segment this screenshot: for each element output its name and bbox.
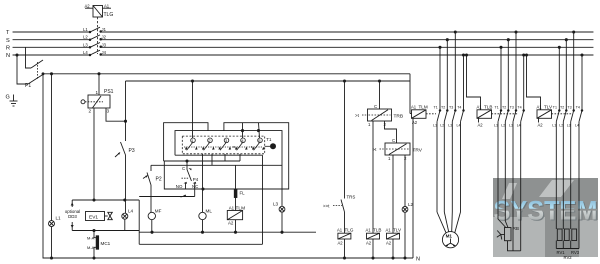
motor M1 bbox=[442, 232, 458, 248]
svg-text:A2: A2 bbox=[366, 241, 372, 246]
svg-text:T3: T3 bbox=[510, 106, 514, 110]
selector position 2 bbox=[202, 138, 215, 150]
svg-text:P4: P4 bbox=[193, 177, 199, 182]
svg-text:A1: A1 bbox=[537, 104, 543, 109]
lamp L1 rail bbox=[49, 74, 55, 258]
coil TLG (top, main switch) bbox=[85, 6, 111, 18]
selector position 4 bbox=[235, 138, 248, 150]
svg-text:N: N bbox=[416, 257, 420, 263]
svg-text:A2: A2 bbox=[85, 4, 91, 9]
svg-text:TRS: TRS bbox=[347, 195, 356, 200]
svg-text:P1: P1 bbox=[25, 83, 31, 89]
watermark slash shape small bbox=[502, 183, 517, 199]
contactor TLM contacts bbox=[437, 31, 465, 122]
svg-text:L2: L2 bbox=[83, 35, 88, 40]
wire NC branch with aux contact bbox=[139, 195, 195, 198]
svg-text:T1: T1 bbox=[553, 106, 557, 110]
coil TLB (right contactor) bbox=[465, 54, 518, 123]
svg-text:L3: L3 bbox=[83, 42, 88, 47]
svg-text:A1: A1 bbox=[229, 205, 235, 210]
wire TRV pin2 rail with lamp L2 bbox=[402, 155, 408, 258]
svg-text:T4: T4 bbox=[517, 106, 521, 110]
selector position 5 bbox=[252, 138, 265, 150]
lamp MF bbox=[148, 212, 155, 232]
svg-text:TLM: TLM bbox=[419, 104, 428, 109]
svg-text:M1: M1 bbox=[446, 233, 453, 238]
svg-text:L4: L4 bbox=[457, 123, 461, 127]
coil TLB (bottom) bbox=[367, 233, 380, 258]
svg-text:A2: A2 bbox=[386, 241, 392, 246]
svg-text:S: S bbox=[6, 38, 10, 44]
svg-text:RV3: RV3 bbox=[571, 250, 580, 255]
wire selector feeds pos4 pos5 bbox=[241, 123, 259, 138]
resistor RV3 bbox=[572, 229, 577, 241]
svg-text:TLG: TLG bbox=[345, 228, 354, 233]
bus S bbox=[13, 39, 90, 41]
watermark SYSTEM text bbox=[494, 195, 599, 226]
svg-text:T2: T2 bbox=[441, 106, 445, 110]
svg-text:J4: J4 bbox=[102, 50, 107, 55]
svg-text:J1: J1 bbox=[102, 27, 107, 32]
svg-text:A1: A1 bbox=[337, 228, 343, 233]
bus T bbox=[13, 31, 90, 33]
svg-text:L2: L2 bbox=[559, 123, 563, 127]
wire selector feed from line B bbox=[192, 81, 194, 138]
svg-text:A2: A2 bbox=[538, 123, 544, 128]
watermark grey box bbox=[493, 178, 599, 257]
brake RB bbox=[497, 228, 511, 241]
svg-text:T4: T4 bbox=[576, 106, 580, 110]
svg-text:FL: FL bbox=[240, 191, 246, 196]
svg-text:N: N bbox=[6, 53, 10, 59]
thermal element FL and coil TLM (pilot) bbox=[227, 165, 242, 232]
svg-text:3: 3 bbox=[107, 109, 110, 114]
svg-text:EV1: EV1 bbox=[89, 214, 98, 220]
dashed link from TLG coil to contacts bbox=[97, 17, 99, 54]
svg-text:J2: J2 bbox=[102, 35, 107, 40]
svg-text:L2: L2 bbox=[501, 123, 505, 127]
svg-text:L3: L3 bbox=[273, 202, 279, 207]
wire line B bbox=[126, 80, 411, 82]
optional DD3 link bbox=[71, 200, 74, 231]
svg-text:RB: RB bbox=[513, 226, 519, 231]
svg-text:L4: L4 bbox=[83, 50, 88, 55]
wire outer loop around selector bbox=[164, 123, 289, 190]
wire EV1/L4 loop bbox=[72, 155, 262, 244]
svg-text:T: T bbox=[6, 30, 10, 36]
ground G bbox=[10, 95, 18, 107]
svg-text:A2: A2 bbox=[478, 123, 484, 128]
bus R bbox=[13, 46, 90, 48]
selector inner contact rail bbox=[184, 146, 263, 148]
wire TRB pin2 to TRV bbox=[385, 121, 397, 143]
bus N bbox=[13, 54, 90, 56]
svg-text:L1: L1 bbox=[83, 27, 88, 32]
svg-text:L1: L1 bbox=[552, 123, 556, 127]
svg-text:L3: L3 bbox=[448, 123, 452, 127]
svg-text:DD3: DD3 bbox=[68, 214, 77, 219]
svg-text:TLB: TLB bbox=[484, 104, 492, 109]
svg-text:RV2: RV2 bbox=[564, 255, 573, 260]
lamp L3 bbox=[279, 206, 285, 232]
svg-text:L2: L2 bbox=[440, 123, 444, 127]
svg-text:T1: T1 bbox=[495, 106, 499, 110]
svg-text:A1: A1 bbox=[411, 104, 417, 109]
svg-text:G: G bbox=[6, 95, 10, 101]
svg-text:C: C bbox=[374, 104, 377, 109]
bottom bus N bbox=[43, 74, 413, 259]
lamp ML bbox=[199, 212, 206, 232]
svg-text:T3: T3 bbox=[567, 106, 571, 110]
resistor RV1 bbox=[557, 229, 562, 241]
valve EV1 bbox=[86, 212, 113, 221]
wire TRB pin1 to coil TLB bbox=[372, 121, 374, 233]
thermal contact MC1 bbox=[94, 231, 99, 259]
wire inner loop around selector bbox=[175, 131, 282, 207]
svg-text:A1: A1 bbox=[386, 228, 392, 233]
svg-text:L1: L1 bbox=[494, 123, 498, 127]
svg-text:A1: A1 bbox=[477, 104, 483, 109]
svg-text:TLV: TLV bbox=[544, 104, 553, 109]
svg-text:A2: A2 bbox=[228, 221, 234, 226]
svg-text:MF: MF bbox=[155, 209, 162, 214]
svg-text:T1: T1 bbox=[434, 106, 438, 110]
svg-text:T3: T3 bbox=[449, 106, 453, 110]
svg-text:M-A: M-A bbox=[87, 236, 95, 241]
lamp L4 bbox=[122, 213, 128, 230]
svg-text:A2: A2 bbox=[338, 241, 344, 246]
svg-text:L4: L4 bbox=[575, 123, 579, 127]
svg-text:R: R bbox=[6, 46, 10, 52]
svg-text:L3: L3 bbox=[509, 123, 513, 127]
svg-text:A1: A1 bbox=[104, 4, 110, 9]
lamp L1 bbox=[49, 221, 55, 227]
svg-text:T2: T2 bbox=[560, 106, 564, 110]
coil TLG (bottom) bbox=[338, 233, 351, 258]
changeover contact C/P4 bbox=[182, 161, 197, 197]
contactor TLV contacts bbox=[556, 31, 583, 122]
timer contact TRV bbox=[380, 143, 411, 155]
svg-text:C: C bbox=[182, 166, 185, 171]
svg-text:TLV: TLV bbox=[393, 228, 402, 233]
svg-text:1: 1 bbox=[96, 90, 99, 95]
svg-text:TLM: TLM bbox=[236, 205, 246, 211]
main switch contacts L1-J1..L4-J4 bbox=[89, 27, 101, 56]
wire bus A (switched phase) bbox=[43, 73, 410, 75]
timer contact TRB bbox=[362, 81, 392, 121]
svg-text:J3: J3 bbox=[102, 42, 107, 47]
svg-text:NO: NO bbox=[176, 184, 183, 189]
watermark slash shape large bbox=[539, 180, 574, 197]
svg-text:P3: P3 bbox=[129, 148, 135, 154]
contactor TLB contacts bbox=[498, 31, 525, 122]
svg-text:A2: A2 bbox=[412, 120, 418, 125]
svg-text:TRV: TRV bbox=[413, 148, 423, 154]
svg-text:T2: T2 bbox=[502, 106, 506, 110]
coil TLV (right contactor) bbox=[525, 54, 573, 123]
resistor RV2 bbox=[564, 229, 569, 241]
selector switch dashed box bbox=[182, 136, 264, 154]
svg-text:L1: L1 bbox=[433, 123, 437, 127]
svg-text:A1: A1 bbox=[366, 228, 372, 233]
svg-text:M-A: M-A bbox=[87, 245, 95, 250]
wire selector outputs down bbox=[203, 154, 241, 212]
svg-text:PS1: PS1 bbox=[104, 89, 114, 95]
svg-text:TLG: TLG bbox=[104, 12, 114, 18]
coil TLM (right contactor) bbox=[410, 74, 436, 258]
timer contact TRS on TLG rail bbox=[333, 81, 345, 233]
svg-text:L1: L1 bbox=[56, 216, 62, 221]
svg-text:L3: L3 bbox=[567, 123, 571, 127]
switch P2 bbox=[143, 165, 151, 212]
wire TRV pin1 to coil TLV bbox=[392, 155, 394, 233]
wire TLB to brake RB bbox=[498, 122, 521, 251]
selector position 3 bbox=[218, 138, 231, 150]
coil TLV (bottom) bbox=[387, 233, 400, 258]
svg-text:TLB: TLB bbox=[373, 228, 381, 233]
svg-text:C: C bbox=[392, 138, 395, 143]
svg-text:T1: T1 bbox=[266, 137, 272, 142]
svg-text:TRB: TRB bbox=[394, 114, 404, 120]
svg-text:L4: L4 bbox=[517, 123, 521, 127]
svg-text:NC: NC bbox=[192, 184, 198, 189]
svg-text:MC1: MC1 bbox=[101, 241, 111, 246]
svg-text:>>t: >>t bbox=[323, 204, 330, 209]
svg-text:2: 2 bbox=[89, 109, 92, 114]
switch P1 (double pole, from N and R) bbox=[16, 47, 44, 84]
pressure switch PS1 bbox=[81, 74, 127, 200]
svg-text:L4: L4 bbox=[128, 209, 134, 214]
svg-text:P2: P2 bbox=[156, 177, 162, 183]
svg-text:T4: T4 bbox=[457, 106, 461, 110]
wire maze horizontals bbox=[139, 155, 316, 233]
svg-text:ML: ML bbox=[206, 209, 213, 214]
wire TLV to resistors bbox=[556, 122, 579, 249]
wire TLM to motor bbox=[437, 122, 461, 233]
selector position 1 bbox=[185, 138, 198, 150]
rail from line B left end down, with switch P3 bbox=[115, 81, 126, 213]
